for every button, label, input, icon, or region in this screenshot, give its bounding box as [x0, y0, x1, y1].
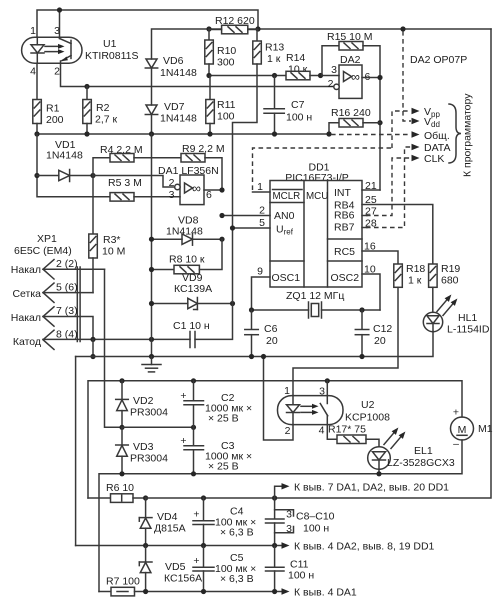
svg-text:1: 1 [30, 25, 36, 37]
diode VD5 KS156A zener [139, 546, 202, 592]
label DA2 OP07P [410, 54, 467, 66]
node C8-C10 top [272, 495, 277, 500]
resistor R10 300 [205, 29, 237, 76]
svg-text:300: 300 [217, 57, 235, 69]
node VD9 left [149, 301, 154, 306]
resistor R1 200 [33, 100, 64, 127]
XP1 pin 8 Katod [13, 329, 190, 350]
svg-text:4: 4 [30, 66, 36, 78]
node C6 bottom [249, 354, 254, 359]
svg-text:VD4: VD4 [157, 511, 178, 523]
node DA2 out [377, 75, 382, 80]
node VD2 top [119, 378, 124, 383]
resistor R14 10k [286, 52, 339, 80]
svg-text:КС156А: КС156А [164, 573, 202, 585]
wire DA1 pin6 [204, 189, 222, 191]
diode VD6 1N4148 [145, 55, 197, 79]
XP1 pin 7 Nakal [11, 305, 93, 339]
wire DD1 pin28 RB7 stub [362, 218, 377, 230]
svg-text:MCLR: MCLR [273, 191, 301, 202]
svg-text:КС139А: КС139А [174, 283, 212, 295]
svg-text:3: 3 [286, 523, 292, 535]
node C3 bottom [191, 471, 196, 476]
svg-text:Накал: Накал [11, 312, 41, 324]
svg-text:R13: R13 [265, 42, 284, 54]
svg-text:∞: ∞ [351, 70, 360, 84]
node C4 bottom [201, 543, 206, 548]
resistor R5 3M [108, 177, 180, 201]
svg-text:+: + [193, 555, 199, 567]
wire doubler mid to C2 bottom [122, 426, 194, 428]
svg-text:Накал: Накал [11, 264, 41, 276]
svg-text:200: 200 [46, 114, 64, 126]
svg-text:1: 1 [284, 385, 290, 397]
wire R13 bottom jog to Uref column [233, 64, 258, 228]
svg-text:5: 5 [259, 217, 265, 229]
wire U1 pin2 to emitter node [61, 63, 337, 86]
svg-text:С8–С10: С8–С10 [296, 511, 335, 523]
node R11 bottom [207, 131, 212, 136]
svg-text:DA2 OP07P: DA2 OP07P [410, 54, 467, 66]
wire R2 bottom [86, 124, 88, 135]
svg-text:R14: R14 [286, 52, 305, 64]
svg-text:U1: U1 [103, 38, 117, 50]
connector XP1 double bar [77, 267, 80, 342]
node VD8 right [219, 237, 224, 242]
svg-text:+: + [180, 390, 186, 402]
diode VD2 PR3004 [116, 381, 168, 428]
svg-text:VD5: VD5 [165, 561, 186, 573]
wire +5 rail y=498 continues [146, 497, 275, 499]
resistor R19 680 [429, 263, 461, 287]
svg-text:2,7 к: 2,7 к [95, 114, 118, 126]
svg-text:100 н: 100 н [303, 523, 329, 535]
resistor R2 2,7k [83, 100, 118, 126]
node EL1 on minus rail [376, 471, 381, 476]
dashed Obshch common line [331, 130, 450, 142]
motor M1 [451, 407, 493, 451]
wire DD1 pin5 Uref [233, 217, 271, 229]
wire DA2 pin6 [362, 77, 380, 79]
wire node-B rail y=75.5 [209, 75, 286, 77]
svg-text:20: 20 [266, 335, 278, 347]
svg-text:VD2: VD2 [133, 395, 154, 407]
svg-text:6: 6 [206, 189, 212, 201]
node R14 right / DA2 pin3 / R15 left [318, 73, 323, 78]
node AN0 tap [219, 213, 224, 218]
wire U2 pin3 up to plus rail [326, 381, 328, 396]
op-amp DA1 LF356N [93, 165, 219, 205]
svg-text:R3*: R3* [103, 234, 121, 246]
wire heater pin2 column down to doubler mid node [105, 269, 123, 427]
svg-text:Д815А: Д815А [154, 523, 186, 535]
svg-text:680: 680 [441, 275, 459, 287]
svg-text:1N4148: 1N4148 [46, 150, 83, 162]
wire R2 top stub [86, 87, 88, 100]
wire VD6 to VD7 [151, 68, 153, 105]
node doubler mid [119, 425, 124, 430]
svg-text:ZQ1 12 МГц: ZQ1 12 МГц [286, 290, 344, 302]
svg-text:К выв. 4 DA2, выв. 8, 19 DD1: К выв. 4 DA2, выв. 8, 19 DD1 [294, 541, 435, 553]
node U1 pin3 on top rail [57, 7, 62, 12]
optocoupler U1 KTIR0811S body [22, 25, 139, 78]
wire bottom rail y=591.5 [146, 591, 281, 593]
svg-text:100: 100 [217, 111, 235, 123]
svg-text:R17* 75: R17* 75 [328, 424, 366, 436]
U2 light arrows [301, 404, 319, 415]
node C4 top [201, 495, 206, 500]
svg-text:5 (6): 5 (6) [56, 282, 78, 294]
arrow to pin4 DA2 pins 8 19 DD1 [282, 541, 435, 553]
wire cathode net down to minus rail [75, 357, 77, 546]
XP1 pin 5 Setka [12, 282, 93, 303]
resistor R18 1k [394, 263, 426, 287]
node Uref tap [230, 225, 235, 230]
svg-text:27: 27 [365, 206, 377, 218]
svg-text:PR3004: PR3004 [130, 453, 168, 465]
svg-text:1 к: 1 к [408, 275, 422, 287]
svg-text:3: 3 [54, 25, 60, 37]
svg-text:3: 3 [331, 64, 337, 76]
svg-text:R18: R18 [406, 263, 425, 275]
dashed Vpp line from DD1 pin1 [253, 106, 441, 190]
node VD3 bottom [119, 471, 124, 476]
capacitor C11 100n [266, 546, 315, 592]
ladder left rail from common down to ground [151, 134, 153, 357]
node VD5 bottom [143, 589, 148, 594]
node R2 bottom [84, 131, 89, 136]
svg-text:VD3: VD3 [133, 441, 154, 453]
wire R3 bottom to grid pin [92, 258, 94, 293]
U1 internal LED [31, 37, 44, 63]
svg-text:25: 25 [365, 194, 377, 206]
node DA1 out [219, 187, 224, 192]
svg-text:DA2: DA2 [340, 54, 361, 66]
svg-text:20: 20 [374, 335, 386, 347]
dashed CLK line from RB6 [366, 153, 444, 216]
wire DD1 pin10 OSC2 [362, 264, 380, 311]
XP1 pin 2 Nakal [11, 258, 105, 279]
svg-text:6Е5С (ЕМ4): 6Е5С (ЕМ4) [14, 245, 72, 257]
svg-text:EL1: EL1 [414, 445, 433, 457]
node C2 top [191, 378, 196, 383]
svg-text:KTIR0811S: KTIR0811S [85, 50, 139, 62]
node R10 top [206, 26, 211, 31]
node crystal right / C12 [359, 307, 364, 312]
node R1 bottom [34, 131, 39, 136]
svg-text:VD6: VD6 [163, 55, 184, 67]
svg-text:× 25 В: × 25 В [208, 461, 239, 473]
node VD4 bottom VD5 top [143, 543, 148, 548]
svg-text:100 н: 100 н [286, 112, 312, 124]
node VD1 anode [34, 173, 39, 178]
node R16 left drop [326, 131, 331, 136]
svg-text:OSC1: OSC1 [272, 272, 301, 284]
node C11 bottom [272, 589, 277, 594]
svg-text:XP1: XP1 [37, 233, 57, 245]
wire DD1 pin16 RC5 [362, 241, 398, 265]
svg-text:R16 240: R16 240 [331, 107, 371, 119]
svg-text:RC5: RC5 [334, 246, 355, 258]
svg-text:10 М: 10 М [102, 246, 125, 258]
wire DD1 pin21 INT [362, 180, 380, 192]
node R10 bottom [206, 73, 211, 78]
svg-text:4: 4 [319, 425, 325, 437]
diode VD9 KS139A zener [152, 272, 233, 310]
node R16 right [377, 120, 382, 125]
arrow to pin4 DA1 [282, 587, 357, 599]
svg-text:R10: R10 [217, 45, 236, 57]
resistor R9 2,2M [181, 143, 225, 190]
svg-text:AN0: AN0 [274, 210, 295, 222]
svg-text:+: + [453, 407, 459, 419]
node VD9 right on Uref column [230, 301, 235, 306]
U2 internal LED [287, 396, 300, 425]
resistor R16 240 [329, 107, 380, 134]
node C7 bottom [272, 131, 277, 136]
capacitor C2 1000uF 25V [180, 381, 252, 428]
capacitor C3 1000uF 25V [180, 427, 252, 474]
op-amp DA2 OP07P [328, 54, 371, 98]
wire R19 bottom to HL1 [432, 287, 434, 312]
node VD1 cathode / R4 / DA1 pin2 [90, 173, 95, 178]
node cathode pins join [90, 337, 95, 342]
svg-text:7 (3): 7 (3) [56, 305, 78, 317]
svg-text:1 к: 1 к [267, 53, 281, 65]
node R2 top [84, 84, 89, 89]
svg-text:R5 3 М: R5 3 М [108, 177, 142, 189]
svg-text:R1: R1 [46, 103, 60, 115]
wire U1 pin4 to R1 [36, 63, 38, 99]
svg-text:28: 28 [365, 218, 377, 230]
svg-text:RB7: RB7 [334, 222, 355, 234]
wire EL1 bottom [378, 469, 380, 474]
node crystal left / OSC1 [249, 307, 254, 312]
U1 light arrows [45, 44, 65, 54]
resistor R8 10k [152, 239, 223, 274]
svg-text:MCU: MCU [306, 191, 328, 202]
ground symbol [142, 357, 161, 372]
wire DD1 pin1 MCLR [253, 181, 271, 193]
wire left column x=37 down to VD1 and R5 [37, 134, 110, 197]
diode VD4 D815A zener [139, 498, 185, 546]
svg-text:Сетка: Сетка [12, 288, 41, 300]
node cathode / C1 / ladder [149, 337, 154, 342]
capacitor C6 20 [245, 310, 278, 357]
wire Uref column continues to C1 [195, 228, 233, 339]
svg-text:CLK: CLK [424, 153, 444, 165]
wire DD1 pin25 RB4 [362, 194, 433, 264]
svg-text:100 н: 100 н [288, 570, 314, 582]
svg-text:C7: C7 [291, 99, 305, 111]
capacitor C12 20 [355, 310, 392, 357]
capacitor block C8-C10 100n [266, 498, 335, 546]
svg-text:3: 3 [286, 509, 292, 521]
svg-text:+: + [193, 509, 199, 521]
resistor R12 620 [209, 15, 258, 34]
svg-text:R2: R2 [96, 102, 110, 114]
svg-text:Катод: Катод [13, 336, 41, 348]
node C2 bottom [191, 425, 196, 430]
quartz ZQ1 12MHz [252, 290, 381, 318]
node cathode on ground rail [90, 354, 95, 359]
diode VD3 PR3004 [116, 427, 168, 474]
wire U2 pin2 to ground rail [264, 357, 294, 441]
capacitor C5 100uF 6.3V [193, 546, 256, 592]
node C7 top [272, 73, 277, 78]
resistor R17* 75 [327, 424, 379, 447]
resistor R13 1k [253, 29, 285, 65]
svg-text:1N4148: 1N4148 [160, 113, 197, 125]
optocoupler U2 KCP1008 body [278, 385, 391, 437]
svg-text:R7 100: R7 100 [106, 576, 140, 588]
wire DD1 pin2 AN0 [222, 205, 270, 217]
svg-text:2: 2 [328, 78, 334, 90]
svg-text:INT: INT [334, 187, 352, 199]
svg-text:RB6: RB6 [334, 210, 355, 222]
svg-text:+: + [180, 435, 186, 447]
wire +5V top rail from U1 to R12 right [37, 10, 258, 37]
svg-text:10: 10 [364, 264, 376, 276]
svg-text:R8 10 к: R8 10 к [169, 254, 205, 266]
wire minus rail y=473.8 [99, 440, 462, 592]
node ground symbol junction [149, 354, 154, 359]
LED HL1 L-1154ID [423, 295, 490, 336]
capacitor C1 10n [173, 320, 210, 348]
svg-text:2: 2 [259, 205, 265, 217]
node R8 left [149, 267, 154, 272]
svg-text:R11: R11 [217, 99, 236, 111]
svg-text:KCP1008: KCP1008 [345, 412, 390, 424]
dashed Vdd line from +5 rail [403, 31, 440, 129]
svg-text:16: 16 [364, 241, 376, 253]
svg-text:9: 9 [257, 266, 263, 278]
connector XP1 labels [14, 233, 72, 257]
svg-text:3: 3 [319, 386, 325, 398]
resistor R7 100 [99, 576, 146, 596]
svg-text:C12: C12 [373, 323, 392, 335]
svg-text:PIC16F73-I/P: PIC16F73-I/P [285, 172, 349, 184]
capacitor C7 100n [264, 76, 312, 135]
microcontroller DD1 PIC16F73-I/P box [270, 162, 362, 288]
svg-text:× 6,3 В: × 6,3 В [220, 573, 254, 585]
node C5 bottom [201, 589, 206, 594]
resistor R11 100 [206, 76, 236, 135]
node C8-C10 bottom [272, 543, 277, 548]
svg-text:L-1154ID: L-1154ID [447, 324, 490, 336]
dashed DATA line from RB7 [366, 142, 450, 228]
wire mid rail y=545.5 [76, 545, 281, 547]
wire R18 bottom to U2 pin1 [293, 287, 398, 395]
svg-text:∞: ∞ [192, 182, 201, 196]
svg-text:2: 2 [54, 66, 60, 78]
wire cathode drop to ground rail [92, 339, 94, 356]
svg-text:HL1: HL1 [458, 312, 477, 324]
svg-text:LZ-3528GCX3: LZ-3528GCX3 [387, 457, 455, 469]
node Vdd tap [400, 26, 405, 31]
LED EL1 LZ-3528GCX3 [368, 428, 455, 470]
wire +5V rail y=29 with corner down to VD6 [152, 29, 492, 59]
node U2 pin3 tap [325, 378, 330, 383]
node VD7 bottom [149, 131, 154, 136]
resistor R4 2,2M [93, 144, 181, 176]
wire doubler plus rail y=380.8 [88, 381, 462, 498]
wire ground rail y=356.5 [76, 332, 433, 357]
node VD8 left [149, 237, 154, 242]
node R6 right / VD4 top [143, 495, 148, 500]
wire right edge +5V riser [275, 29, 491, 498]
node U2 pin2 on ground rail [261, 354, 266, 359]
resistor R15 10M feedback [322, 31, 380, 190]
resistor R3* 10M [89, 234, 126, 258]
svg-text:R19: R19 [441, 263, 460, 275]
U1 phototransistor [60, 37, 72, 63]
arrow to pin7 DA1 DA2 pin20 DD1 [275, 482, 450, 499]
wire VD7 to common rail [151, 115, 153, 135]
svg-text:21: 21 [365, 180, 377, 192]
svg-text:К выв. 4 DA1: К выв. 4 DA1 [294, 587, 357, 599]
svg-text:2: 2 [285, 425, 291, 437]
brace to programmer [449, 93, 474, 177]
svg-text:C6: C6 [264, 323, 278, 335]
svg-text:PR3004: PR3004 [130, 407, 168, 419]
wire DD1 pin9 OSC1 [252, 266, 271, 311]
node R12 right / R13 top [255, 26, 260, 31]
U2 internal switch [320, 396, 327, 425]
svg-text:К программатору: К программатору [462, 93, 474, 177]
svg-text:OSC2: OSC2 [331, 272, 360, 284]
svg-text:Общ.: Общ. [424, 130, 450, 142]
node C12 bottom [359, 354, 364, 359]
capacitor C4 100uF 6.3V [193, 498, 256, 546]
resistor R6 10 [88, 482, 146, 502]
wire DD1 pin27 RB6 stub [362, 206, 377, 218]
svg-text:С1 10 н: С1 10 н [173, 320, 210, 332]
svg-text:К выв. 7 DA1, DA2, выв. 20 DD1: К выв. 7 DA1, DA2, выв. 20 DD1 [294, 482, 449, 494]
wire R1 bottom [36, 124, 38, 135]
svg-text:–: – [453, 438, 459, 450]
svg-text:1: 1 [257, 181, 263, 193]
svg-text:M: M [458, 424, 467, 436]
wire grid column R3 [92, 176, 94, 235]
svg-text:VD7: VD7 [164, 101, 185, 113]
svg-text:U2: U2 [361, 399, 375, 411]
svg-text:× 6,3 В: × 6,3 В [220, 527, 254, 539]
diode VD7 1N4148 [145, 101, 197, 125]
svg-text:2: 2 [169, 177, 175, 189]
wire U1 pin3 riser [59, 10, 61, 37]
diode VD8 1N4148 [152, 215, 223, 246]
svg-text:R6 10: R6 10 [106, 482, 134, 494]
svg-text:1N4148: 1N4148 [160, 67, 197, 79]
diode VD1 1N4148 [37, 139, 93, 182]
wire common rail y=134 [37, 133, 329, 135]
svg-text:2 (2): 2 (2) [56, 258, 78, 270]
svg-text:× 25 В: × 25 В [208, 413, 239, 425]
svg-text:3: 3 [169, 189, 175, 201]
